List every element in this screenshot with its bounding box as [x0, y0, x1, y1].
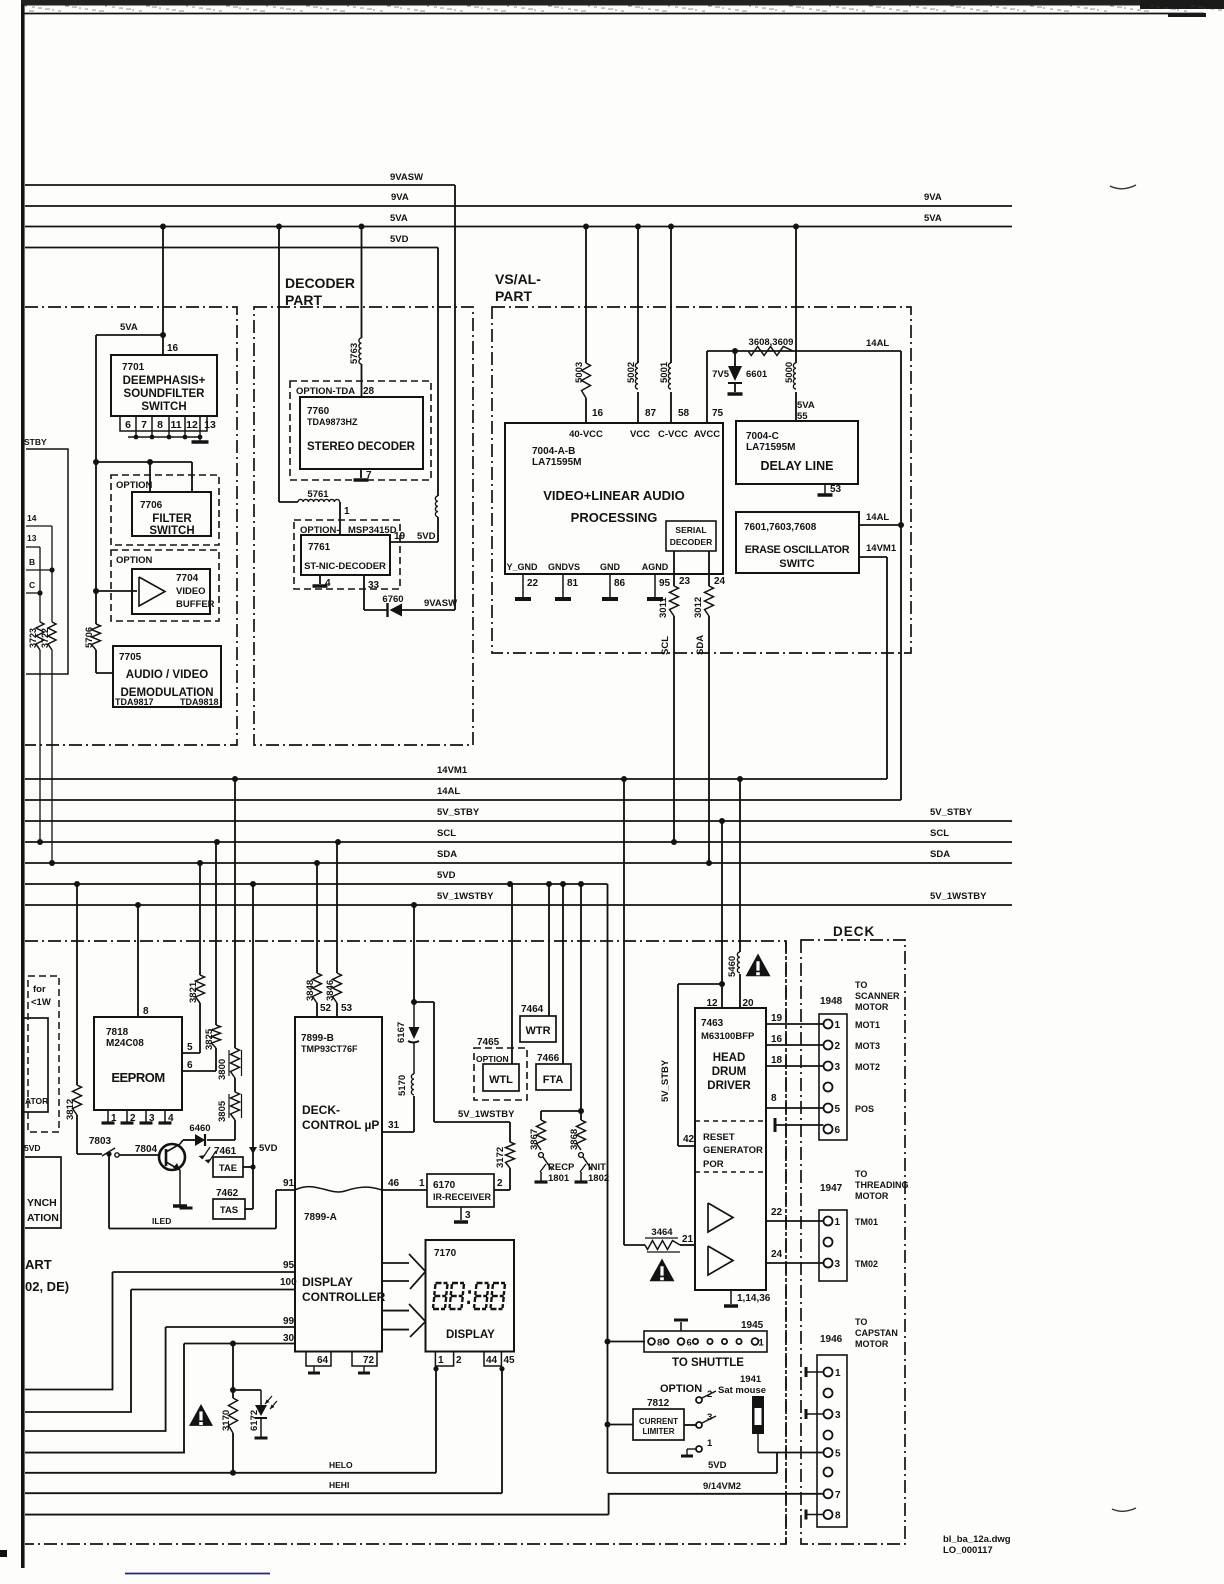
svg-text:TM02: TM02 [855, 1259, 878, 1269]
svg-text:16: 16 [771, 1034, 783, 1045]
svg-text:HEAD: HEAD [713, 1052, 746, 1064]
svg-text:MOT1: MOT1 [855, 1020, 880, 1030]
svg-text:8: 8 [143, 1006, 149, 1017]
svg-text:DECODER: DECODER [670, 537, 713, 547]
svg-text:DRIVER: DRIVER [707, 1080, 751, 1092]
svg-text:<1W: <1W [31, 997, 51, 1008]
svg-text:5460: 5460 [727, 956, 738, 977]
svg-text:8: 8 [771, 1093, 777, 1104]
svg-text:16: 16 [592, 408, 604, 419]
svg-text:ART: ART [25, 1257, 52, 1272]
svg-text:14AL: 14AL [866, 338, 889, 349]
svg-text:7462: 7462 [216, 1188, 239, 1199]
svg-text:7466: 7466 [537, 1053, 560, 1064]
svg-text:5761: 5761 [307, 489, 329, 500]
svg-text:5VD: 5VD [24, 1143, 41, 1153]
svg-text:3848: 3848 [305, 980, 316, 1001]
svg-text:7: 7 [141, 419, 147, 431]
svg-text:81: 81 [567, 578, 579, 589]
svg-text:7004-A-B: 7004-A-B [532, 446, 575, 457]
svg-text:23: 23 [679, 576, 691, 587]
svg-text:91: 91 [283, 1178, 295, 1189]
svg-text:21: 21 [682, 1234, 694, 1245]
svg-text:99: 99 [283, 1316, 295, 1327]
svg-text:VS/AL-: VS/AL- [495, 271, 541, 287]
svg-text:FILTER: FILTER [152, 513, 192, 525]
svg-text:GENERATOR: GENERATOR [703, 1145, 763, 1156]
svg-text:28: 28 [363, 386, 375, 397]
svg-text:POR: POR [703, 1159, 724, 1170]
svg-text:1: 1 [707, 1438, 713, 1449]
svg-text:INIT: INIT [588, 1162, 606, 1173]
svg-text:TAE: TAE [219, 1163, 237, 1174]
svg-text:TO SHUTTLE: TO SHUTTLE [672, 1357, 744, 1369]
svg-text:1947: 1947 [820, 1183, 843, 1194]
svg-text:SDA: SDA [437, 849, 457, 860]
svg-text:7: 7 [835, 1490, 841, 1501]
svg-text:SCL: SCL [930, 828, 949, 839]
svg-text:44: 44 [486, 1355, 498, 1366]
svg-text:OPTION: OPTION [116, 480, 153, 491]
svg-text:MOTOR: MOTOR [855, 1191, 889, 1201]
svg-text:14: 14 [27, 513, 37, 523]
svg-text:EEPROM: EEPROM [111, 1070, 164, 1085]
svg-text:3722: 3722 [40, 628, 50, 648]
svg-text:5: 5 [835, 1104, 841, 1115]
svg-text:DECODER: DECODER [285, 275, 355, 291]
svg-text:5V_1WSTBY: 5V_1WSTBY [437, 891, 494, 902]
svg-text:DRUM: DRUM [712, 1066, 747, 1078]
svg-text:5VD: 5VD [437, 870, 456, 881]
svg-text:6167: 6167 [396, 1022, 407, 1043]
svg-text:9VA: 9VA [924, 192, 942, 203]
svg-text:3867: 3867 [529, 1129, 540, 1150]
svg-text:SWITC: SWITC [779, 558, 814, 570]
svg-text:PROCESSING: PROCESSING [571, 510, 658, 525]
svg-text:3868: 3868 [569, 1129, 580, 1150]
svg-text:12: 12 [186, 419, 198, 431]
svg-text:IR-RECEIVER: IR-RECEIVER [433, 1192, 492, 1202]
svg-text:OPTION-TDA: OPTION-TDA [296, 386, 355, 397]
svg-text:95: 95 [283, 1260, 295, 1271]
svg-text:19: 19 [394, 531, 406, 542]
svg-text:5001: 5001 [659, 361, 670, 383]
svg-text:95: 95 [659, 578, 671, 589]
svg-text:6: 6 [835, 1125, 841, 1136]
svg-text:22: 22 [771, 1207, 783, 1218]
svg-text:SOUNDFILTER: SOUNDFILTER [124, 388, 206, 400]
svg-text:7V5: 7V5 [712, 369, 730, 380]
svg-text:CONTROL µP: CONTROL µP [302, 1118, 379, 1132]
svg-text:TDA9873HZ: TDA9873HZ [307, 417, 358, 427]
svg-text:7461: 7461 [214, 1146, 237, 1157]
svg-text:45: 45 [504, 1355, 516, 1366]
svg-text:6: 6 [125, 419, 131, 431]
svg-text:1: 1 [759, 1338, 765, 1349]
svg-text:8: 8 [157, 419, 163, 431]
svg-text:TDA9817: TDA9817 [115, 697, 154, 707]
svg-text:64: 64 [317, 1355, 329, 1366]
svg-text:7761: 7761 [308, 542, 331, 553]
svg-text:2: 2 [497, 1178, 503, 1189]
svg-text:5VA: 5VA [924, 213, 942, 224]
svg-text:5706: 5706 [84, 627, 95, 648]
svg-text:TAS: TAS [220, 1205, 238, 1216]
svg-text:16: 16 [167, 343, 179, 354]
svg-text:FTA: FTA [543, 1074, 564, 1086]
svg-text:6601: 6601 [746, 369, 768, 380]
svg-text:VIDEO+LINEAR AUDIO: VIDEO+LINEAR AUDIO [543, 488, 684, 503]
svg-text:POS: POS [855, 1104, 874, 1114]
svg-text:7899-B: 7899-B [301, 1033, 334, 1044]
svg-text:GND: GND [600, 562, 621, 572]
svg-text:1802: 1802 [588, 1173, 609, 1184]
svg-text:TM01: TM01 [855, 1217, 878, 1227]
svg-text:VIDEO: VIDEO [176, 586, 206, 597]
svg-text:5VD: 5VD [259, 1143, 278, 1154]
svg-text:3821: 3821 [188, 981, 199, 1003]
svg-text:3805: 3805 [217, 1100, 228, 1122]
svg-text:7760: 7760 [307, 406, 330, 417]
svg-text:1: 1 [419, 1178, 425, 1189]
svg-text:AUDIO / VIDEO: AUDIO / VIDEO [126, 669, 208, 681]
svg-text:1801: 1801 [548, 1173, 570, 1184]
svg-text:5VD: 5VD [390, 234, 409, 245]
svg-text:for: for [33, 984, 46, 995]
svg-text:STEREO DECODER: STEREO DECODER [307, 441, 416, 453]
svg-text:75: 75 [712, 408, 724, 419]
svg-text:42: 42 [683, 1134, 695, 1145]
svg-text:5170: 5170 [397, 1075, 408, 1096]
svg-text:7170: 7170 [434, 1248, 457, 1259]
svg-text:40-VCC: 40-VCC [569, 429, 603, 440]
svg-text:5V_1WSTBY: 5V_1WSTBY [930, 891, 987, 902]
svg-text:LA71595M: LA71595M [746, 442, 795, 453]
svg-text:SDA: SDA [695, 635, 706, 655]
svg-text:3172: 3172 [495, 1147, 506, 1168]
svg-text:CAPSTAN: CAPSTAN [855, 1328, 898, 1338]
svg-text:6172: 6172 [249, 1410, 260, 1431]
svg-text:SWITCH: SWITCH [149, 525, 194, 537]
svg-text:5V_STBY: 5V_STBY [437, 807, 480, 818]
svg-text:CONTROLLER: CONTROLLER [302, 1290, 386, 1304]
svg-text:72: 72 [363, 1355, 375, 1366]
svg-text:7812: 7812 [647, 1398, 670, 1409]
svg-text:7701: 7701 [122, 362, 145, 373]
svg-text:6460: 6460 [189, 1123, 210, 1134]
svg-text:86: 86 [614, 578, 626, 589]
svg-text:WTL: WTL [489, 1074, 513, 1086]
svg-text:DECK: DECK [833, 924, 875, 939]
svg-text:bl_ba_12a.dwg: bl_ba_12a.dwg [943, 1534, 1011, 1545]
svg-text:7704: 7704 [176, 573, 199, 584]
svg-text:8: 8 [835, 1511, 841, 1522]
svg-text:M24C08: M24C08 [106, 1038, 144, 1049]
svg-text:1: 1 [835, 1217, 841, 1228]
svg-text:30: 30 [283, 1333, 295, 1344]
svg-text:HELO: HELO [329, 1460, 353, 1470]
svg-text:TMP93CT76F: TMP93CT76F [301, 1044, 358, 1054]
svg-text:11: 11 [170, 419, 181, 431]
svg-text:7465: 7465 [477, 1037, 500, 1048]
svg-text:PART: PART [285, 292, 323, 308]
svg-text:3723: 3723 [28, 628, 38, 648]
svg-text:5000: 5000 [784, 362, 795, 383]
svg-text:6760: 6760 [382, 594, 403, 605]
svg-text:LIMITER: LIMITER [643, 1427, 675, 1436]
svg-text:53: 53 [341, 1003, 353, 1014]
svg-text:02, DE): 02, DE) [25, 1279, 69, 1294]
svg-text:5V_STBY: 5V_STBY [930, 807, 973, 818]
svg-text:3464: 3464 [651, 1227, 673, 1238]
svg-text:1948: 1948 [820, 996, 843, 1007]
svg-text:AGND: AGND [642, 562, 669, 572]
svg-text:C: C [29, 580, 35, 590]
svg-text:TO: TO [855, 1317, 867, 1327]
svg-text:9VA: 9VA [391, 192, 409, 203]
svg-text:3846: 3846 [325, 980, 336, 1001]
svg-text:RESET: RESET [703, 1132, 735, 1143]
svg-text:2: 2 [835, 1041, 841, 1052]
svg-text:MOTOR: MOTOR [855, 1339, 889, 1349]
svg-text:7804: 7804 [135, 1144, 158, 1155]
svg-text:DEEMPHASIS+: DEEMPHASIS+ [123, 375, 206, 387]
svg-text:2: 2 [456, 1355, 462, 1366]
svg-text:3: 3 [835, 1062, 841, 1073]
svg-text:HEHI: HEHI [329, 1480, 349, 1490]
svg-text:PART: PART [495, 288, 533, 304]
svg-text:LA71595M: LA71595M [532, 457, 581, 468]
svg-text:33: 33 [368, 580, 380, 591]
svg-text:RECP: RECP [548, 1162, 575, 1173]
svg-text:GNDVS: GNDVS [548, 562, 580, 572]
svg-text:3: 3 [835, 1259, 841, 1270]
svg-text:MOTOR: MOTOR [855, 1002, 889, 1012]
svg-text:SDA: SDA [930, 849, 950, 860]
svg-text:B: B [29, 557, 35, 567]
svg-text:3800: 3800 [217, 1059, 228, 1080]
svg-text:YNCH: YNCH [27, 1197, 57, 1209]
svg-text:5002: 5002 [626, 362, 637, 383]
svg-text:46: 46 [388, 1178, 400, 1189]
svg-text:24: 24 [714, 576, 726, 587]
svg-text:SCL: SCL [437, 828, 456, 839]
svg-text:AVCC: AVCC [694, 429, 720, 440]
svg-text:5763: 5763 [349, 343, 360, 364]
svg-text:VCC: VCC [630, 429, 650, 440]
svg-text:CURRENT: CURRENT [639, 1417, 678, 1426]
svg-text:5VA: 5VA [797, 400, 815, 411]
svg-text:5VA: 5VA [120, 322, 138, 333]
svg-text:1941: 1941 [740, 1374, 762, 1385]
svg-text:MOT3: MOT3 [855, 1041, 880, 1051]
svg-text:5VA: 5VA [390, 213, 408, 224]
svg-text:1: 1 [835, 1368, 841, 1379]
svg-text:5VD: 5VD [417, 531, 436, 542]
svg-text:3812: 3812 [65, 1099, 76, 1120]
svg-text:SCL: SCL [660, 636, 671, 655]
svg-text:3: 3 [835, 1410, 841, 1421]
svg-text:MOT2: MOT2 [855, 1062, 880, 1072]
svg-text:Sat mouse: Sat mouse [718, 1385, 766, 1396]
svg-text:DELAY LINE: DELAY LINE [761, 459, 834, 473]
svg-text:19: 19 [771, 1013, 783, 1024]
svg-text:7601,7603,7608: 7601,7603,7608 [744, 522, 817, 533]
svg-text:3: 3 [465, 1210, 471, 1221]
svg-text:5V_1WSTBY: 5V_1WSTBY [458, 1109, 515, 1120]
svg-text:87: 87 [645, 408, 657, 419]
svg-text:M63100BFP: M63100BFP [701, 1031, 755, 1042]
svg-text:BUFFER: BUFFER [176, 599, 215, 610]
svg-text:OPTION: OPTION [660, 1383, 702, 1395]
svg-text:STBY: STBY [24, 437, 47, 447]
svg-text:DISPLAY: DISPLAY [302, 1275, 353, 1289]
svg-text:Y_GND: Y_GND [506, 562, 538, 572]
svg-text:3170: 3170 [221, 1410, 232, 1431]
svg-text:8: 8 [657, 1338, 662, 1349]
svg-text:DECK-: DECK- [302, 1103, 340, 1117]
svg-text:24: 24 [771, 1249, 783, 1260]
svg-text:ILED: ILED [152, 1216, 171, 1226]
svg-text:5VD: 5VD [708, 1460, 727, 1471]
svg-text:OPTION: OPTION [476, 1054, 509, 1064]
svg-text:31: 31 [388, 1120, 400, 1131]
svg-text:7803: 7803 [89, 1136, 112, 1147]
svg-text:14VM1: 14VM1 [437, 765, 468, 776]
svg-text:13: 13 [27, 533, 37, 543]
svg-text:1946: 1946 [820, 1334, 843, 1345]
svg-text:LO_000117: LO_000117 [943, 1545, 993, 1556]
svg-text:5: 5 [187, 1042, 193, 1053]
svg-text:3012: 3012 [693, 597, 704, 618]
svg-text:1,14,36: 1,14,36 [737, 1293, 771, 1304]
svg-text:1: 1 [438, 1355, 444, 1366]
svg-text:100: 100 [280, 1277, 297, 1288]
svg-text:18: 18 [771, 1055, 783, 1066]
svg-text:58: 58 [678, 408, 690, 419]
svg-text:13: 13 [204, 419, 216, 431]
svg-text:1945: 1945 [741, 1320, 764, 1331]
svg-text:SERIAL: SERIAL [675, 525, 706, 535]
svg-text:22: 22 [527, 578, 539, 589]
svg-text:7899-A: 7899-A [304, 1212, 337, 1223]
svg-text:5V_STBY: 5V_STBY [660, 1059, 671, 1102]
svg-text:TDA9818: TDA9818 [180, 697, 219, 707]
svg-text:9VASW: 9VASW [424, 598, 457, 609]
svg-text:14VM1: 14VM1 [866, 543, 897, 554]
svg-text:SWITCH: SWITCH [141, 401, 186, 413]
svg-text:5: 5 [835, 1449, 841, 1460]
svg-text:9VASW: 9VASW [390, 172, 423, 183]
svg-text:OPTION: OPTION [116, 555, 153, 566]
svg-text:6170: 6170 [433, 1180, 456, 1191]
svg-text:7705: 7705 [119, 652, 142, 663]
svg-text:7463: 7463 [701, 1018, 724, 1029]
svg-text:1: 1 [344, 506, 350, 517]
svg-text:SCANNER: SCANNER [855, 991, 900, 1001]
svg-text:ST-NIC-DECODER: ST-NIC-DECODER [304, 561, 386, 572]
svg-text:ATOR: ATOR [25, 1096, 48, 1106]
svg-text:ERASE OSCILLATOR: ERASE OSCILLATOR [745, 544, 850, 556]
svg-text:14AL: 14AL [437, 786, 460, 797]
svg-text:6: 6 [187, 1060, 193, 1071]
svg-text:DISPLAY: DISPLAY [446, 1329, 495, 1341]
svg-text:C-VCC: C-VCC [658, 429, 688, 440]
svg-text:5003: 5003 [574, 362, 585, 383]
svg-text:THREADING: THREADING [855, 1180, 909, 1190]
svg-text:6: 6 [687, 1338, 692, 1349]
svg-text:14AL: 14AL [866, 512, 889, 523]
svg-text:3608,3609: 3608,3609 [749, 337, 794, 348]
svg-text:TO: TO [855, 1169, 867, 1179]
svg-text:3825: 3825 [204, 1028, 215, 1050]
svg-text:WTR: WTR [525, 1025, 550, 1037]
svg-text:52: 52 [320, 1003, 332, 1014]
svg-text:7464: 7464 [521, 1004, 544, 1015]
svg-text:9/14VM2: 9/14VM2 [703, 1481, 741, 1492]
svg-text:1: 1 [835, 1020, 841, 1031]
svg-text:7004-C: 7004-C [746, 431, 779, 442]
svg-text:TO: TO [855, 980, 867, 990]
svg-text:7706: 7706 [140, 500, 163, 511]
svg-text:ATION: ATION [27, 1212, 59, 1224]
svg-text:7818: 7818 [106, 1027, 129, 1038]
